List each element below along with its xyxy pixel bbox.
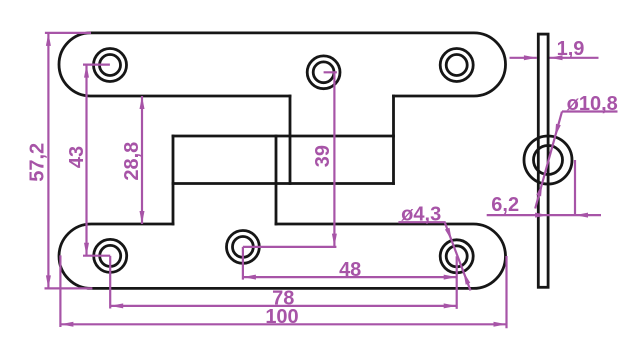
svg-text:39: 39	[312, 145, 334, 167]
svg-text:100: 100	[265, 306, 298, 328]
svg-text:6,2: 6,2	[491, 194, 519, 216]
svg-text:43: 43	[66, 146, 88, 168]
svg-text:57,2: 57,2	[27, 143, 49, 182]
svg-text:28,8: 28,8	[121, 142, 143, 181]
svg-text:48: 48	[339, 259, 361, 281]
svg-text:ø10,8: ø10,8	[567, 93, 618, 115]
svg-text:ø4,3: ø4,3	[401, 203, 441, 225]
svg-text:1,9: 1,9	[557, 38, 585, 60]
